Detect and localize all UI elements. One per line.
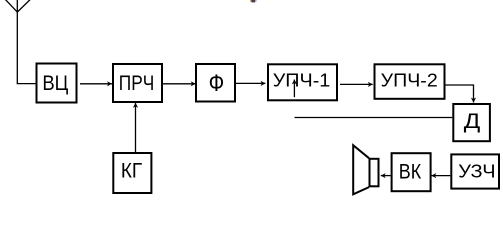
svg-text:ВЦ: ВЦ	[42, 72, 68, 95]
svg-text:Ф: Ф	[209, 70, 225, 97]
svg-text:ВК: ВК	[399, 160, 422, 184]
svg-text:УПЧ-2: УПЧ-2	[381, 71, 438, 91]
svg-text:КГ: КГ	[121, 160, 143, 183]
svg-text:УЗЧ: УЗЧ	[458, 161, 495, 182]
svg-text:ПРЧ: ПРЧ	[119, 72, 154, 95]
svg-text:Д: Д	[464, 109, 481, 133]
svg-text:УПЧ-1: УПЧ-1	[273, 71, 331, 91]
